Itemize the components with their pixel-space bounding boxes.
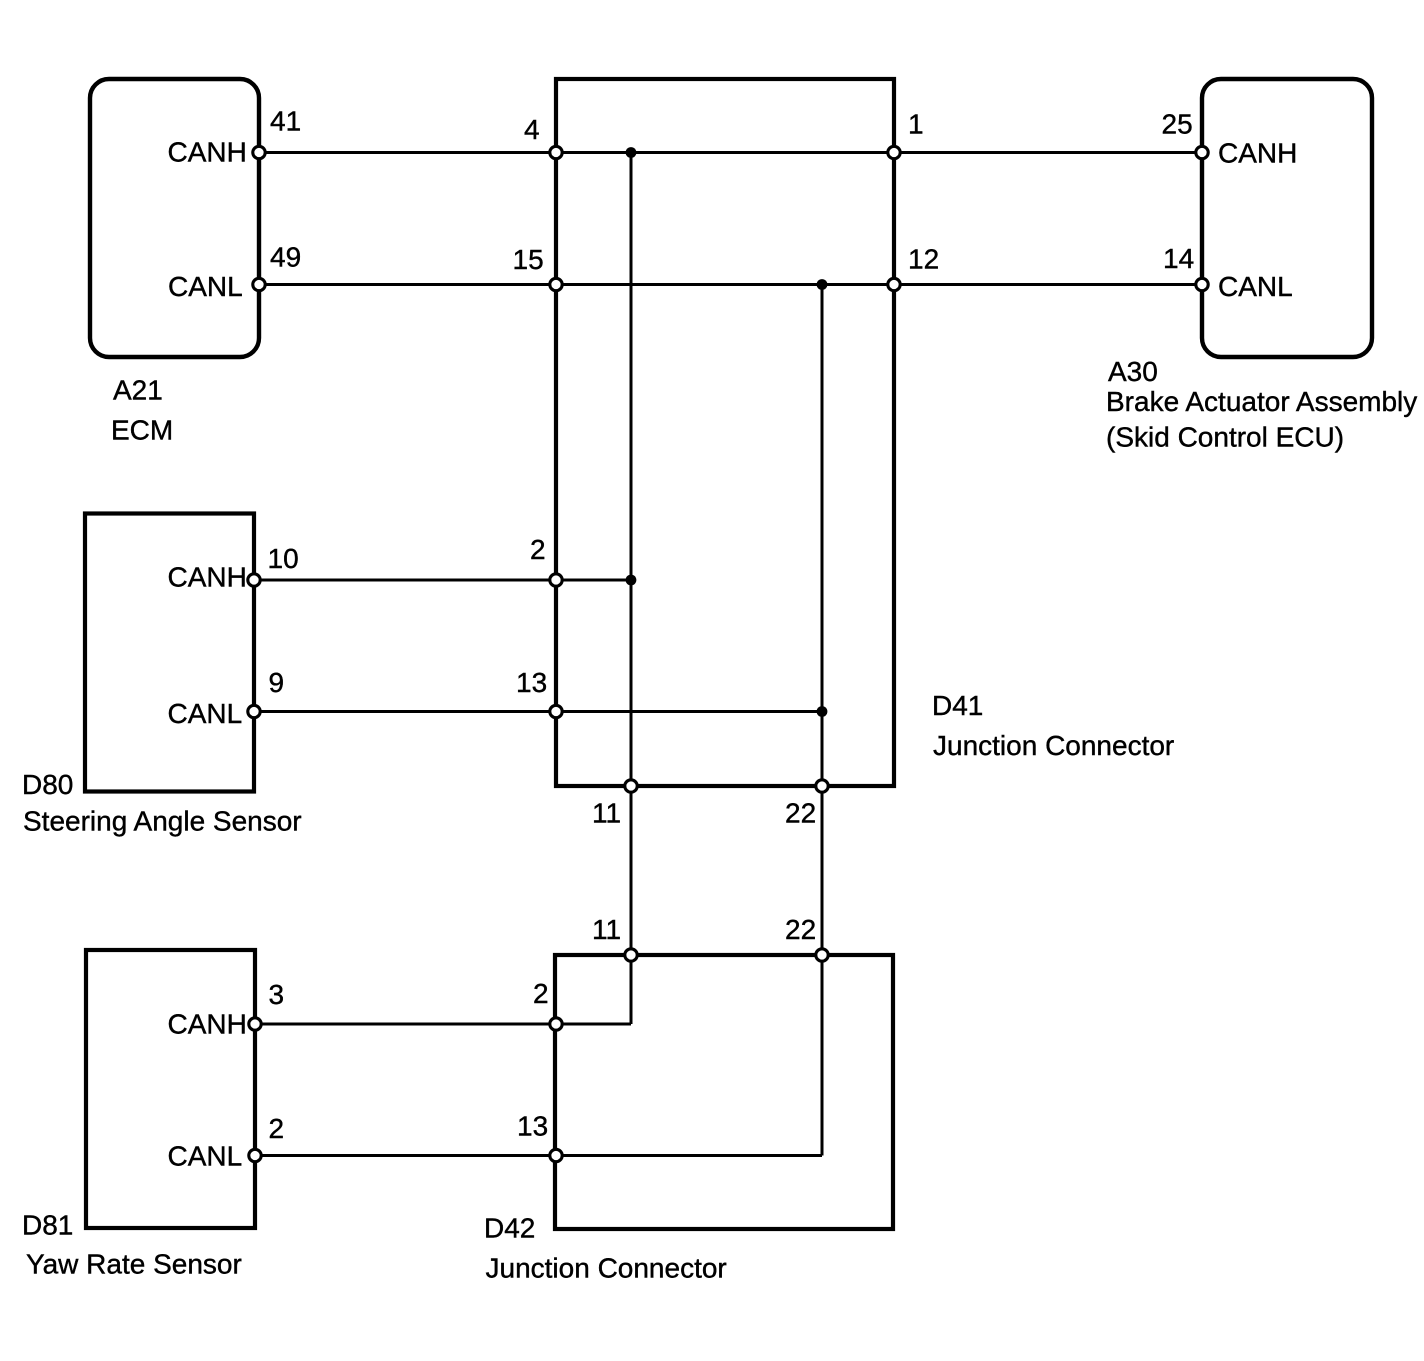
svg-text:2: 2: [530, 534, 546, 565]
svg-text:14: 14: [1163, 243, 1194, 274]
svg-text:CANH: CANH: [168, 137, 247, 168]
svg-text:CANL: CANL: [168, 1141, 243, 1172]
svg-text:D81: D81: [22, 1210, 73, 1241]
svg-text:22: 22: [785, 914, 816, 945]
svg-text:15: 15: [513, 244, 544, 275]
svg-text:Brake Actuator Assembly: Brake Actuator Assembly: [1106, 386, 1417, 417]
svg-text:Junction Connector: Junction Connector: [486, 1253, 727, 1284]
svg-text:CANH: CANH: [1218, 138, 1297, 169]
svg-text:D42: D42: [484, 1213, 535, 1244]
svg-text:Steering Angle Sensor: Steering Angle Sensor: [23, 806, 302, 837]
svg-text:9: 9: [269, 667, 285, 698]
svg-text:41: 41: [270, 106, 301, 137]
svg-text:2: 2: [533, 978, 549, 1009]
svg-text:4: 4: [524, 114, 540, 145]
svg-text:Yaw Rate Sensor: Yaw Rate Sensor: [26, 1249, 242, 1280]
svg-text:1: 1: [908, 109, 924, 140]
svg-text:D80: D80: [22, 769, 73, 800]
svg-text:CANL: CANL: [168, 271, 243, 302]
svg-text:12: 12: [908, 244, 939, 275]
svg-text:A21: A21: [113, 375, 163, 406]
svg-text:13: 13: [516, 667, 547, 698]
svg-text:CANL: CANL: [168, 698, 243, 729]
svg-text:13: 13: [517, 1111, 548, 1142]
svg-text:CANH: CANH: [168, 1009, 247, 1040]
svg-text:49: 49: [270, 242, 301, 273]
svg-text:D41: D41: [932, 690, 983, 721]
svg-text:11: 11: [592, 914, 621, 945]
svg-text:22: 22: [785, 798, 816, 829]
svg-text:Junction Connector: Junction Connector: [933, 730, 1174, 761]
svg-text:CANL: CANL: [1218, 271, 1293, 302]
svg-text:(Skid Control ECU): (Skid Control ECU): [1106, 422, 1344, 453]
svg-text:25: 25: [1162, 109, 1193, 140]
svg-text:10: 10: [268, 543, 299, 574]
svg-text:ECM: ECM: [111, 415, 173, 446]
svg-text:3: 3: [269, 979, 285, 1010]
svg-text:11: 11: [592, 798, 621, 829]
svg-text:CANH: CANH: [168, 562, 247, 593]
svg-text:2: 2: [269, 1113, 285, 1144]
svg-text:A30: A30: [1108, 356, 1158, 387]
